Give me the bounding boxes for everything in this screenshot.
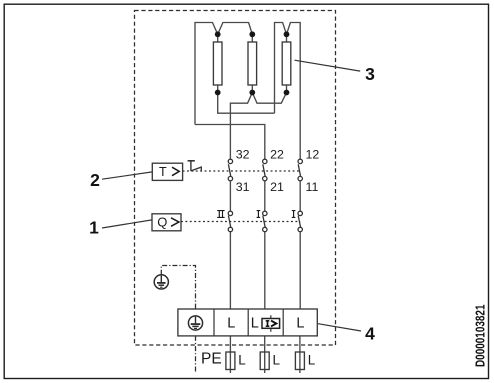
- svg-text:1: 1: [89, 217, 99, 237]
- svg-text:21: 21: [270, 180, 284, 194]
- svg-text:L: L: [227, 316, 235, 332]
- svg-text:4: 4: [365, 323, 375, 343]
- svg-text:L: L: [251, 316, 259, 332]
- svg-text:12: 12: [306, 148, 320, 162]
- svg-text:3: 3: [365, 64, 375, 84]
- svg-text:22: 22: [270, 148, 284, 162]
- svg-text:31: 31: [236, 180, 250, 194]
- svg-text:2: 2: [90, 170, 100, 190]
- svg-text:L: L: [273, 352, 281, 367]
- svg-text:T: T: [159, 165, 167, 179]
- svg-text:32: 32: [236, 148, 250, 162]
- svg-text:PE: PE: [201, 351, 222, 368]
- svg-text:L: L: [308, 352, 316, 367]
- svg-text:L: L: [238, 352, 246, 367]
- svg-text:D0000103821: D0000103821: [472, 305, 487, 368]
- svg-text:Q: Q: [157, 215, 167, 230]
- svg-text:11: 11: [306, 180, 319, 194]
- svg-text:L: L: [296, 316, 304, 332]
